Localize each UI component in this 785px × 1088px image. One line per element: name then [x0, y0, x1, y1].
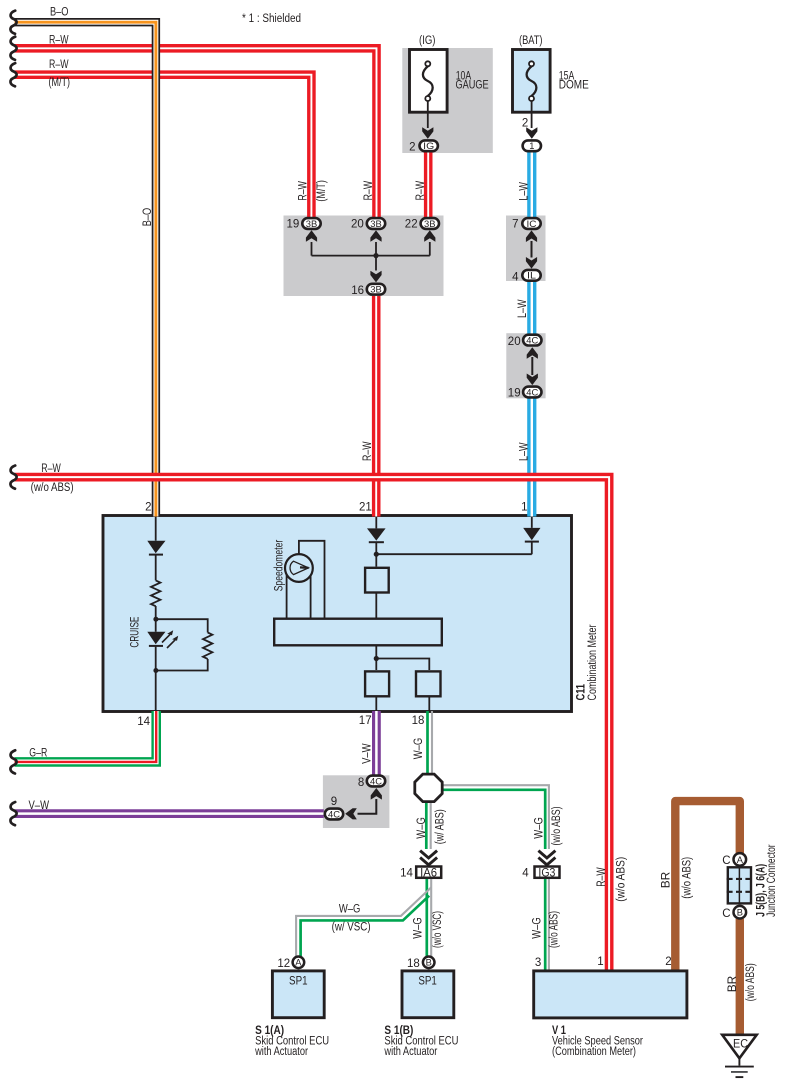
svg-text:3: 3 — [535, 957, 541, 969]
svg-text:9: 9 — [331, 796, 337, 808]
svg-text:W–G: W–G — [532, 917, 544, 939]
svg-text:IL: IL — [527, 271, 536, 281]
svg-text:(w/o ABS): (w/o ABS) — [548, 911, 560, 948]
svg-text:with Actuator: with Actuator — [254, 1046, 308, 1058]
svg-text:(w/ VSC): (w/ VSC) — [332, 922, 371, 934]
svg-text:2: 2 — [665, 956, 671, 968]
svg-text:3B: 3B — [424, 219, 436, 229]
svg-text:Speedometer: Speedometer — [274, 540, 286, 592]
svg-text:W–G: W–G — [413, 738, 425, 760]
svg-text:(w/o ABS): (w/o ABS) — [745, 963, 757, 1001]
svg-text:(M/T): (M/T) — [316, 180, 328, 202]
svg-text:19: 19 — [287, 219, 300, 231]
svg-text:IG: IG — [423, 141, 434, 151]
svg-text:A: A — [295, 958, 302, 968]
svg-text:3B: 3B — [370, 285, 382, 295]
svg-text:17: 17 — [359, 715, 372, 727]
svg-text:C: C — [722, 908, 730, 920]
svg-text:BR: BR — [727, 976, 739, 993]
svg-text:W–G: W–G — [339, 903, 361, 915]
svg-text:19: 19 — [508, 388, 521, 400]
svg-text:4C: 4C — [526, 335, 538, 345]
svg-text:1: 1 — [529, 141, 534, 151]
svg-text:DOME: DOME — [559, 79, 589, 91]
svg-text:2: 2 — [145, 502, 151, 514]
svg-text:2: 2 — [522, 118, 528, 130]
svg-text:R–W: R–W — [49, 34, 69, 46]
svg-text:SP1: SP1 — [418, 975, 437, 987]
svg-text:with Actuator: with Actuator — [384, 1046, 438, 1058]
svg-text:V–W: V–W — [361, 743, 373, 764]
svg-text:Combination Meter: Combination Meter — [587, 624, 599, 700]
svg-text:EC: EC — [733, 1039, 748, 1051]
svg-text:3B: 3B — [370, 219, 382, 229]
svg-text:R–W: R–W — [363, 181, 375, 201]
svg-text:R–W: R–W — [41, 463, 61, 475]
svg-text:21: 21 — [359, 502, 372, 514]
svg-text:4C: 4C — [370, 776, 382, 786]
svg-text:L–W: L–W — [518, 182, 530, 201]
svg-text:W–G: W–G — [413, 917, 425, 939]
svg-text:(w/o ABS): (w/o ABS) — [551, 806, 563, 845]
svg-text:14: 14 — [400, 868, 413, 880]
svg-text:16: 16 — [351, 285, 364, 297]
svg-text:L–W: L–W — [517, 299, 529, 318]
svg-text:V–W: V–W — [29, 800, 50, 812]
svg-text:2: 2 — [409, 141, 415, 153]
svg-text:3B: 3B — [306, 219, 318, 229]
svg-text:(w/o ABS): (w/o ABS) — [31, 482, 74, 494]
svg-text:R–W: R–W — [298, 181, 310, 201]
svg-text:4C: 4C — [328, 809, 340, 819]
svg-text:G–R: G–R — [29, 748, 47, 760]
svg-text:18: 18 — [412, 715, 425, 727]
svg-text:C11: C11 — [576, 684, 588, 701]
svg-text:7: 7 — [512, 219, 518, 231]
svg-text:R–W: R–W — [415, 181, 427, 201]
svg-text:SP1: SP1 — [289, 975, 308, 987]
svg-text:4: 4 — [512, 271, 519, 283]
svg-text:(w/ ABS): (w/ ABS) — [435, 809, 447, 844]
svg-text:20: 20 — [508, 336, 521, 348]
svg-text:W–G: W–G — [534, 817, 546, 839]
svg-text:8: 8 — [358, 777, 364, 789]
svg-text:CRUISE: CRUISE — [130, 616, 142, 647]
svg-text:(IG): (IG) — [419, 35, 436, 47]
svg-text:W–G: W–G — [416, 817, 428, 839]
svg-text:18: 18 — [407, 958, 420, 970]
svg-text:* 1 : Shielded: * 1 : Shielded — [242, 13, 301, 25]
svg-text:R–W: R–W — [49, 59, 69, 71]
svg-text:GAUGE: GAUGE — [456, 79, 489, 91]
svg-text:B–O: B–O — [50, 6, 69, 18]
svg-text:Junction Connector: Junction Connector — [766, 844, 778, 917]
svg-text:(M/T): (M/T) — [49, 77, 71, 89]
svg-text:20: 20 — [351, 219, 364, 231]
svg-text:14: 14 — [137, 716, 150, 728]
svg-text:IA6: IA6 — [420, 868, 437, 880]
svg-text:R–W: R–W — [362, 441, 374, 461]
svg-text:(w/o ABS): (w/o ABS) — [615, 857, 627, 902]
svg-text:22: 22 — [405, 219, 418, 231]
svg-text:(BAT): (BAT) — [519, 35, 543, 47]
svg-text:B–O: B–O — [142, 208, 154, 227]
svg-text:(w/o ABS): (w/o ABS) — [682, 857, 694, 899]
svg-text:BR: BR — [661, 872, 673, 889]
svg-text:L–W: L–W — [518, 442, 530, 461]
svg-text:IG3: IG3 — [538, 868, 555, 880]
svg-text:1: 1 — [521, 502, 527, 514]
svg-text:R–W: R–W — [596, 867, 608, 887]
svg-text:B: B — [426, 958, 432, 968]
svg-text:(w/o VSC): (w/o VSC) — [432, 911, 444, 948]
svg-text:12: 12 — [277, 958, 290, 970]
svg-text:1: 1 — [597, 956, 603, 968]
svg-text:C: C — [722, 855, 730, 867]
svg-text:A: A — [737, 855, 744, 865]
svg-text:IC: IC — [527, 219, 537, 229]
svg-text:B: B — [737, 908, 743, 918]
svg-text:4: 4 — [522, 868, 529, 880]
svg-text:(Combination Meter): (Combination Meter) — [552, 1046, 636, 1058]
svg-text:4C: 4C — [526, 387, 538, 397]
